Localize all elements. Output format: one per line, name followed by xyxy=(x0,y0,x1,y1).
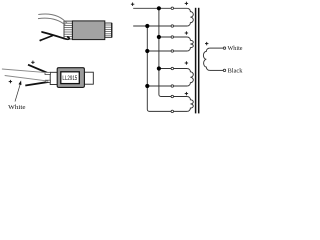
svg-text:LL2915: LL2915 xyxy=(62,75,77,82)
svg-text:Black: Black xyxy=(228,67,244,74)
svg-text:White: White xyxy=(228,45,243,52)
svg-text:White: White xyxy=(8,104,25,111)
